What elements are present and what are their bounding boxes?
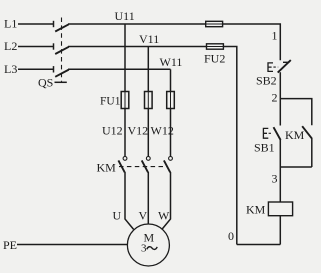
wire U12 from fuse to KM contact a [124, 109, 126, 157]
label U11 [115, 9, 135, 23]
switch QS handle bar [55, 81, 67, 83]
svg-text:KM: KM [285, 128, 305, 142]
label FU1 [100, 96, 121, 108]
QS pole 2 fixed contact tick [53, 43, 55, 49]
node 2 branch wire to KM aux contact [280, 99, 312, 126]
label KM main contacts [97, 161, 117, 175]
label V12 [128, 124, 149, 138]
fuse FU1 pole b body [145, 92, 153, 109]
wire L2 from label to QS contact [18, 46, 54, 48]
label 3~ motor [141, 243, 157, 255]
wire L1/U11 from QS to FU2 upper fuse [68, 23, 206, 25]
label SB2 [256, 74, 277, 88]
QS pole 2 blade [55, 47, 69, 54]
KM main contact a blade [118, 160, 124, 172]
wire L3 from label to QS contact [18, 68, 54, 70]
svg-text:W11: W11 [160, 55, 183, 69]
wire U phase drop from L1 to fuse FU1a [124, 24, 126, 92]
svg-text:V11: V11 [139, 32, 159, 46]
svg-text:V: V [139, 209, 148, 223]
wire W12 from fuse to KM contact c [170, 109, 172, 157]
pushbutton SB1 actuator dashed link [269, 132, 273, 134]
wire V from KM contact b to motor [147, 172, 149, 224]
svg-text:3: 3 [141, 243, 147, 255]
pushbutton SB1 blade [274, 127, 281, 140]
svg-text:3: 3 [272, 172, 278, 186]
svg-text:U11: U11 [115, 9, 135, 23]
wire L3/W11 from QS to W drop [68, 68, 171, 70]
label L1 [4, 17, 17, 31]
svg-text:FU2: FU2 [204, 52, 225, 66]
svg-text:PE: PE [3, 238, 17, 252]
label W12 [151, 124, 174, 138]
fuse FU1 pole c body [167, 92, 175, 109]
wire U11 from fuse to right corner, down to SB2 [223, 24, 281, 60]
switch QS linkage dashed bar [61, 18, 63, 82]
wire V12 from fuse to KM contact b [147, 109, 149, 157]
wire from SB1 through node 3 to KM coil [279, 140, 281, 202]
node 1 [272, 29, 278, 43]
motor M1 circle [127, 224, 169, 266]
label V11 [139, 32, 159, 46]
pushbutton SB1 actuator cap [263, 128, 268, 138]
wire from SB2 to node 2 and SB1 [279, 72, 281, 125]
wire bottom return rail [237, 244, 280, 246]
pushbutton SB2 blade [278, 60, 291, 73]
wire W from KM contact c to motor [162, 172, 171, 229]
KM main contact c blade [164, 160, 170, 172]
label KM aux contact [285, 128, 305, 142]
fuse FU2 upper body [206, 21, 223, 26]
wire node 3 rejoin bar [280, 166, 312, 168]
svg-text:1: 1 [272, 29, 278, 43]
label W11 [160, 55, 183, 69]
wire W phase drop from L3 to fuse FU1c [170, 69, 172, 91]
svg-text:L2: L2 [4, 39, 17, 53]
svg-text:KM: KM [246, 203, 266, 217]
svg-text:U: U [113, 209, 122, 223]
svg-text:QS: QS [38, 76, 53, 90]
svg-text:U12: U12 [102, 124, 123, 138]
QS pole 3 fixed contact tick [53, 66, 55, 72]
label M motor [144, 231, 155, 245]
label W motor terminal [158, 209, 170, 223]
KM auxiliary contact blade [302, 126, 312, 139]
fuse FU2 lower body [207, 44, 224, 49]
svg-text:SB1: SB1 [254, 141, 275, 155]
KM main contact b blade [142, 160, 148, 172]
wire V11 from fuse to corner and down to bottom rail [223, 47, 236, 245]
label SB1 [254, 141, 275, 155]
QS pole 1 fixed contact tick [53, 21, 55, 27]
label PE [3, 238, 17, 252]
wire from KM coil to node 0 bottom rail [279, 216, 281, 245]
KM main contact c fixed terminal circle [169, 157, 173, 161]
label QS [38, 76, 53, 90]
svg-text:V12: V12 [128, 124, 149, 138]
svg-text:KM: KM [97, 161, 117, 175]
svg-text:L1: L1 [4, 17, 17, 31]
QS pole 1 blade [55, 24, 69, 31]
svg-text:FU1: FU1 [100, 96, 121, 108]
label U12 [102, 124, 123, 138]
label U motor terminal [113, 209, 122, 223]
QS pole 3 blade [55, 70, 69, 77]
wire L1 from label to QS contact [18, 23, 54, 25]
label FU2 [204, 52, 225, 66]
svg-text:0: 0 [228, 229, 234, 243]
label KM coil [246, 203, 266, 217]
wire PE to motor frame [17, 244, 128, 246]
label V motor terminal [139, 209, 148, 223]
KM main contact a fixed terminal circle [123, 157, 127, 161]
fuse FU1 pole a body [121, 92, 129, 109]
svg-text:2: 2 [272, 91, 278, 105]
svg-text:L3: L3 [4, 62, 17, 76]
KM main contacts linkage dashed bar [119, 166, 168, 168]
label L3 [4, 62, 17, 76]
svg-text:W12: W12 [151, 124, 174, 138]
node 2 [272, 91, 278, 105]
svg-text:SB2: SB2 [256, 74, 277, 88]
pushbutton SB2 fixed seat bar [283, 61, 289, 63]
KM coil body [268, 202, 292, 216]
label L2 [4, 39, 17, 53]
node 3 [272, 172, 278, 186]
pushbutton SB2 actuator cap [268, 63, 273, 72]
pushbutton SB2 actuator dashed link [273, 66, 278, 68]
wire from KM aux contact to node 3 rejoin [311, 139, 313, 168]
svg-text:W: W [158, 209, 170, 223]
wire V phase drop from L2 to fuse FU1b [147, 47, 149, 92]
wire L2/V11 from QS to FU2 lower fuse [68, 46, 207, 48]
KM main contact b fixed terminal circle [146, 157, 150, 161]
node 0 [228, 229, 234, 243]
wire U from KM contact a to motor [125, 172, 134, 229]
